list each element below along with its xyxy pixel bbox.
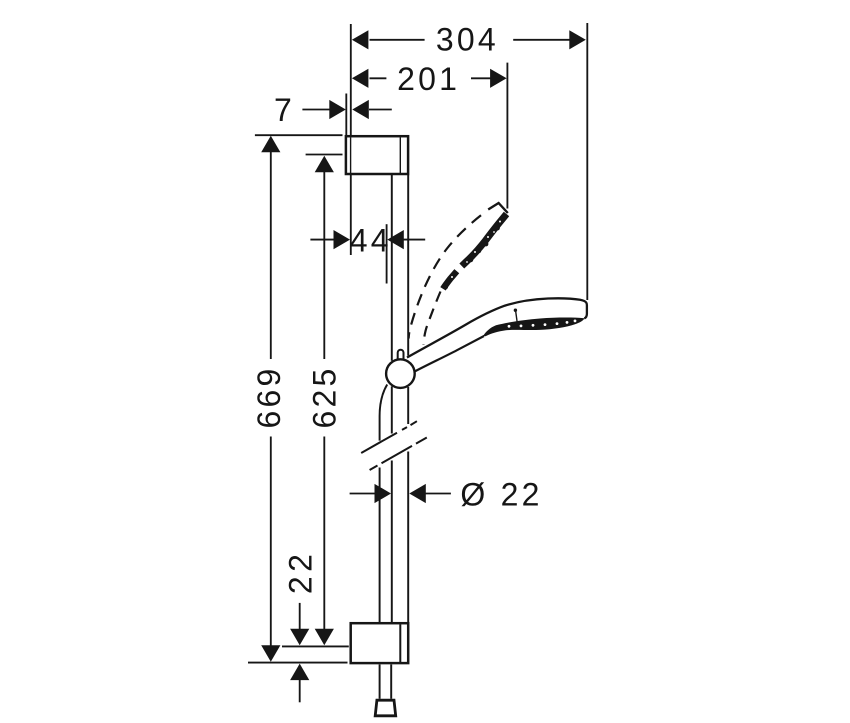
extension line left (wall reference) <box>350 24 352 255</box>
shower hose <box>380 385 392 699</box>
arrowhead 22 top pointing down <box>290 629 309 646</box>
arrowhead 625 top <box>315 156 334 173</box>
arrowhead 7 right pointing left <box>352 100 369 119</box>
pivot slider circle <box>386 359 415 388</box>
arrowhead 304 right <box>569 30 586 49</box>
pivot slider knob <box>398 350 404 360</box>
dimension line 22 vertical <box>299 603 301 630</box>
pipe break symbol <box>361 421 427 470</box>
extension line top for dim 669 <box>255 134 343 136</box>
dimension line 304 <box>370 39 425 41</box>
arrowhead 201 left <box>352 69 369 88</box>
handshower dashed raised position: left outline <box>409 215 481 338</box>
arrowhead 44 right pointing left <box>387 230 404 249</box>
arrowhead 7 left pointing right <box>329 100 346 119</box>
svg-text:22: 22 <box>283 550 319 595</box>
dimension line 7 <box>302 109 329 111</box>
extension line for dim 44 <box>386 224 388 283</box>
svg-text:44: 44 <box>350 223 392 259</box>
extension line for dim 201 <box>506 63 508 209</box>
handshower solid: upper outline and head <box>407 298 587 357</box>
arrowhead diameter22 right pointing left <box>409 484 426 503</box>
extension line bracket left edge for dim 7 <box>345 94 347 137</box>
svg-text:304: 304 <box>436 22 499 58</box>
dashed head spray face band <box>443 214 507 289</box>
arrowhead 22 bottom pointing up <box>290 664 309 681</box>
arrowhead 201 right <box>490 69 507 88</box>
extension line bottom for dim 669 <box>248 662 348 664</box>
select button needle on head <box>516 311 518 323</box>
handshower solid: lower handle edge <box>415 336 485 372</box>
wall bracket top <box>346 136 408 174</box>
dashed head tip cap <box>488 203 508 213</box>
extension line top for dim 625 <box>306 154 343 156</box>
arrowhead 44 left pointing right <box>334 230 351 249</box>
arrowhead diameter22 left pointing right <box>375 484 392 503</box>
handshower solid: spray face band <box>483 318 585 337</box>
svg-text:625: 625 <box>307 366 343 429</box>
arrowhead 669 bottom <box>261 645 280 662</box>
arrowhead 625 bottom <box>315 629 334 646</box>
dimension line diameter 22 <box>350 493 375 495</box>
svg-text:201: 201 <box>397 61 460 97</box>
wall bar right edge <box>407 175 409 622</box>
hose end cone <box>375 700 396 716</box>
wall bar left edge <box>391 175 393 622</box>
extension line right for dim 304 <box>586 23 588 300</box>
dimension line 669 vertical <box>270 152 272 359</box>
dimension line 44 <box>310 239 333 241</box>
svg-text:Ø 22: Ø 22 <box>460 477 542 513</box>
svg-text:7: 7 <box>274 92 295 128</box>
wall bracket bottom <box>351 623 409 663</box>
dimension line 201 <box>370 77 387 79</box>
dimension line 625 vertical <box>323 172 325 360</box>
svg-text:669: 669 <box>251 366 287 429</box>
arrowhead 304 left <box>352 30 369 49</box>
handshower dashed raised position: right outline <box>423 292 440 345</box>
arrowhead 669 top <box>261 136 280 153</box>
extension line bottom for dim 625 and 22 <box>282 645 349 647</box>
